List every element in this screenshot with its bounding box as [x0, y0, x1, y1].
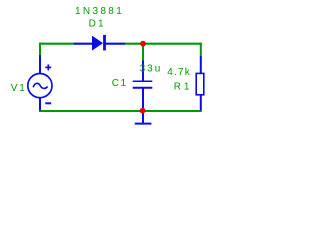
junction node bottom (ground net) — [140, 108, 146, 114]
wire left vertical (top corner down toward V1) — [39, 43, 41, 56]
wire bottom horizontal (ground net) — [39, 110, 202, 112]
junction node top (D1/C1/R1 net) — [140, 41, 146, 47]
svg-text:1N3881: 1N3881 — [75, 6, 124, 17]
wire capacitor top stub (node to C1) — [142, 44, 144, 62]
svg-text:33u: 33u — [140, 64, 163, 75]
svg-text:D1: D1 — [89, 19, 106, 30]
svg-text:V1: V1 — [11, 83, 27, 94]
wire top-left horizontal (node from V1+ to D1 anode) — [39, 43, 75, 45]
wire right vertical (top corner down to R1) — [200, 43, 202, 57]
diode D1 — [74, 35, 125, 51]
svg-text:R1: R1 — [174, 81, 192, 92]
svg-text:C1: C1 — [112, 78, 128, 89]
ground — [135, 111, 152, 124]
capacitor C1 — [133, 61, 153, 111]
resistor R1 — [196, 56, 204, 111]
svg-text:4.7k: 4.7k — [167, 67, 191, 78]
wire top-right horizontal (D1 cathode to node and R1) — [125, 43, 202, 45]
voltage source V1 — [28, 55, 52, 111]
